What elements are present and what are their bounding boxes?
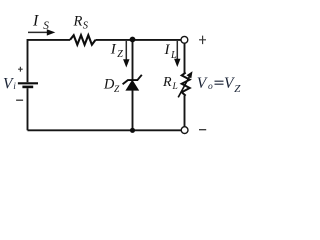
current IS arrow xyxy=(28,31,48,33)
wire zener branch lower xyxy=(132,90,134,130)
svg-text:R: R xyxy=(162,75,172,90)
svg-text:V: V xyxy=(197,75,208,92)
current IZ arrow xyxy=(125,41,127,60)
battery V1 long plate xyxy=(18,82,38,84)
wire load branch upper xyxy=(184,43,186,73)
svg-text:Z: Z xyxy=(234,83,241,95)
label plus output xyxy=(199,36,206,45)
wire top horizontal right segment xyxy=(96,39,182,41)
resistor Rs xyxy=(70,35,96,45)
svg-text:i: i xyxy=(13,82,16,92)
wire top horizontal left segment xyxy=(28,39,71,41)
svg-text:S: S xyxy=(43,20,49,32)
wire left vertical (source branch) xyxy=(27,39,29,82)
svg-text:I: I xyxy=(32,12,39,29)
zener diode DZ cathode bar xyxy=(123,75,142,84)
battery V1 short plate xyxy=(22,86,33,89)
resistor RL zigzag xyxy=(182,73,190,96)
terminal - output (open circle bottom right) xyxy=(181,127,188,134)
svg-text:I: I xyxy=(110,41,117,57)
svg-text:L: L xyxy=(172,82,178,92)
wire load branch lower xyxy=(184,96,186,127)
label battery plus xyxy=(18,67,23,72)
label minus output xyxy=(199,129,206,131)
zener diode DZ triangle xyxy=(126,80,138,90)
label battery minus xyxy=(16,99,23,101)
junction node bottom (zener return) xyxy=(130,128,135,133)
svg-text:L: L xyxy=(170,50,177,61)
svg-text:o: o xyxy=(208,82,213,92)
current IL arrow xyxy=(176,41,178,60)
svg-text:Z: Z xyxy=(114,85,120,95)
svg-text:I: I xyxy=(164,42,171,58)
resistor RL variable arrow xyxy=(178,76,190,97)
svg-text:Z: Z xyxy=(117,49,123,60)
wire zener branch upper xyxy=(132,40,134,80)
svg-text:S: S xyxy=(83,21,89,32)
wire left vertical lower xyxy=(27,88,29,130)
terminal + output (open circle top right) xyxy=(181,36,188,43)
svg-text:R: R xyxy=(73,13,83,29)
wire bottom horizontal xyxy=(28,129,182,131)
junction node top (zener tap) xyxy=(130,37,136,43)
